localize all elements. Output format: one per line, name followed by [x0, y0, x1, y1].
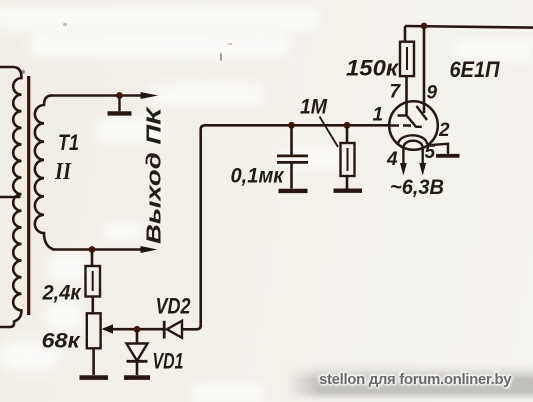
svg-text:VD2: VD2: [156, 294, 192, 319]
wire: vertical riser up to grid line: [201, 125, 205, 327]
svg-text:5: 5: [425, 142, 436, 163]
ground (under VD1): [124, 375, 150, 380]
tube deflection electrode (pin 9): [417, 106, 428, 120]
tube heater arc: [404, 141, 423, 148]
svg-text:0,1мк: 0,1мк: [231, 165, 285, 188]
wire: junction down to VD1: [136, 329, 139, 343]
ground (pin 2): [436, 154, 460, 158]
node: junction dot on wiper wire: [134, 326, 141, 333]
tube cathode arc: [398, 135, 434, 145]
ground (top, near winding II): [108, 96, 132, 114]
svg-text:2,4к: 2,4к: [42, 282, 82, 305]
wire: VD1 to ground: [136, 361, 139, 375]
watermark bar: [286, 363, 533, 402]
capacitor 0,1mk: [277, 156, 308, 163]
label pointer line for 1M: [320, 117, 339, 148]
wire: heater pin 4 lead: [402, 147, 404, 163]
diode VD1: [127, 344, 148, 362]
arrow: pin 4 heater supply: [400, 163, 407, 176]
wire: grid line to tube pin 1: [204, 124, 390, 127]
wire: R 150k down to pin 7: [405, 76, 408, 114]
wire: pin 9 lead down into tube: [423, 26, 426, 113]
scan white patches: [0, 6, 320, 30]
svg-text:II: II: [54, 159, 72, 185]
faint scan specks: [21, 70, 25, 74]
svg-text:~6,3В: ~6,3В: [390, 176, 444, 199]
arrow: top output: [141, 92, 159, 99]
svg-text:9: 9: [427, 83, 438, 104]
tube anode electrode (pin 7): [398, 116, 422, 127]
wire: potentiometer bottom to ground: [92, 348, 95, 375]
transformer core: [27, 76, 30, 315]
svg-text:VD1: VD1: [153, 349, 184, 374]
wire: anode supply rail (top): [405, 26, 533, 28]
wire: cathode pin 2 to ground: [433, 144, 448, 154]
tube grid (pin 1, dashed): [391, 124, 412, 126]
resistor 150k: [400, 42, 414, 76]
transformer T1 winding I (primary, left): [0, 67, 22, 327]
wire: heater pin 5 lead: [422, 147, 424, 163]
wire: winding II top to output arrow: [50, 94, 141, 97]
wire: junction down to capacitor: [290, 125, 293, 154]
transformer T1 winding II (secondary, right): [35, 96, 54, 250]
svg-text:Выход ПК: Выход ПК: [144, 106, 166, 244]
node: junction dot above C 0,1mk: [288, 122, 295, 129]
wire: winding II bottom to output arrow: [52, 248, 141, 251]
node: junction dot on bottom output wire: [89, 246, 96, 253]
ground (under R 1M): [334, 188, 363, 192]
vacuum tube U1 6Е1П envelope: [389, 101, 438, 150]
wire: wiper to VD2: [112, 328, 164, 331]
potentiometer wiper arrow: [102, 324, 114, 334]
wire: R 1M to ground: [346, 176, 349, 189]
svg-text:6Е1П: 6Е1П: [450, 57, 501, 82]
wire: R 2,4k to potentiometer 68k: [92, 297, 95, 314]
arrow: pin 5 heater supply: [419, 163, 426, 176]
svg-text:7: 7: [390, 82, 402, 103]
node: junction dot on top output wire: [116, 92, 123, 99]
wire: rail corner down to R 150k: [404, 26, 407, 42]
node: junction dot above R 1M: [344, 122, 351, 129]
wire: junction down to R 2,4k: [91, 250, 94, 267]
svg-text:4: 4: [386, 149, 398, 170]
arrow: bottom output: [141, 246, 158, 253]
svg-text:2: 2: [438, 120, 450, 141]
ground (under capacitor): [279, 189, 308, 193]
watermark text: [319, 371, 533, 388]
potentiometer 68k body: [87, 313, 101, 348]
diode VD2: [164, 321, 182, 339]
svg-text:150к: 150к: [346, 56, 400, 81]
svg-text:1М: 1М: [300, 96, 327, 119]
winding I middle tap wire: [0, 196, 21, 199]
svg-text:1: 1: [373, 105, 384, 126]
ground (under potentiometer): [80, 375, 109, 380]
node: junction dot on rail (pin 9 branch): [421, 23, 428, 30]
svg-text:68к: 68к: [42, 330, 82, 353]
wire: capacitor to ground: [290, 162, 293, 188]
resistor 1M: [341, 143, 355, 176]
resistor 2,4k: [86, 266, 101, 297]
wire: VD2 to riser corner: [182, 325, 201, 329]
svg-text:T1: T1: [58, 130, 79, 155]
wire: junction down to R 1M: [346, 125, 349, 143]
